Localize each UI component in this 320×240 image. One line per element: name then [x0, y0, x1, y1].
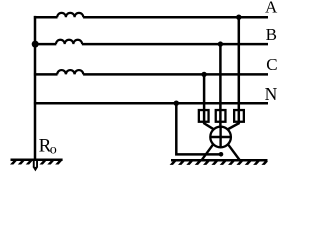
svg-text:N: N [265, 84, 278, 104]
svg-text:B: B [266, 25, 277, 44]
svg-text:A: A [265, 0, 278, 17]
svg-text:o: o [50, 143, 57, 158]
svg-text:C: C [266, 55, 277, 74]
